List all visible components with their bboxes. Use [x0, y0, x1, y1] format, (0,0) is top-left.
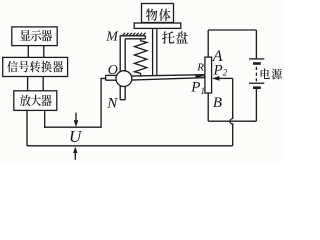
- wire amplifier left down: [26, 110, 28, 145]
- battery bottom lead: [255, 89, 257, 121]
- svg-text:U: U: [69, 127, 83, 146]
- arrow down to middle wire: [75, 113, 77, 122]
- wire display-converter left: [27, 46, 29, 58]
- pivot left stub: [106, 75, 117, 80]
- battery cell2 short plate: [253, 86, 261, 89]
- battery cell1 long plate: [249, 58, 264, 60]
- wiper wire with hop: [230, 78, 233, 145]
- svg-text:P: P: [190, 80, 200, 96]
- wire pivot stub to amplifier: [45, 78, 106, 127]
- spring: [134, 39, 147, 76]
- top wire R to battery: [208, 29, 256, 31]
- svg-text:N: N: [106, 96, 118, 112]
- wire converter-amplifier left: [27, 77, 29, 91]
- resistor body R: [205, 57, 212, 93]
- svg-text:2: 2: [223, 68, 228, 78]
- label 托盘: [162, 31, 188, 44]
- label 电源: [261, 68, 282, 79]
- signal converter box 信号转换器: [3, 57, 68, 76]
- battery cell1 short plate: [253, 62, 261, 65]
- wire converter-amplifier right: [42, 77, 44, 91]
- svg-text:M: M: [105, 30, 119, 45]
- tray plate: [134, 23, 181, 28]
- fixed bracket hatched bar: [120, 33, 146, 39]
- svg-text:P: P: [213, 63, 223, 79]
- wire top of R: [207, 30, 209, 57]
- fixed bracket vertical rod: [120, 36, 125, 72]
- wiper arrow P2: [218, 77, 233, 79]
- tray stem: [153, 28, 157, 75]
- amplifier box 放大器: [14, 91, 57, 111]
- battery top lead: [255, 30, 257, 58]
- svg-text:1: 1: [201, 86, 206, 96]
- wire display-converter right: [43, 46, 45, 58]
- wire B to battery bottom: [208, 120, 256, 122]
- pivot circle O: [116, 71, 132, 87]
- lever arm pointed tip (wiper P1 contact): [196, 75, 206, 78]
- lever arm: [131, 75, 205, 80]
- battery cell2 long plate: [249, 82, 264, 84]
- pivot rod below O: [120, 86, 125, 100]
- battery dashed middle: [255, 67, 257, 81]
- wire bottom of R: [207, 93, 209, 121]
- svg-text:B: B: [213, 95, 222, 111]
- arrow up to bottom wire: [74, 153, 76, 160]
- display unit box 显示器: [12, 27, 57, 46]
- object box 物体: [142, 4, 174, 23]
- svg-text:R: R: [196, 62, 204, 74]
- bottom wire: [27, 145, 233, 147]
